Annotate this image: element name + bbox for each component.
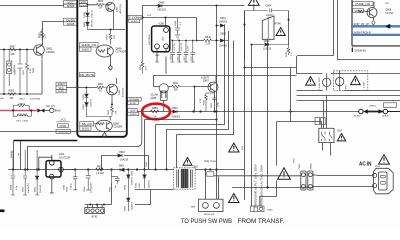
svg-text:R812: R812 [203, 99, 205, 105]
svg-text:R8B1: R8B1 [152, 107, 159, 110]
warning triangle T801 [183, 158, 199, 169]
node VCC tag inside [79, 0, 87, 7]
svg-text:1K: 1K [99, 8, 102, 10]
svg-text:SK925: SK925 [131, 21, 138, 23]
outer thin enclosure line [0, 112, 142, 170]
svg-text:BT62: BT62 [92, 216, 98, 219]
transistor Q861 [107, 78, 125, 104]
wire vertical x=245.2 [244, 11, 246, 201]
wire blue bus FR_CH [351, 25, 400, 27]
wire vertical x=267.7 [267, 45, 269, 188]
svg-text:C147M: C147M [386, 13, 393, 15]
wire y=90.6 [297, 90, 400, 92]
wire staircase 3 [177, 41, 234, 135]
node OLP label + warning triangle [337, 129, 346, 141]
resistor R812 4.7K vertical [200, 93, 215, 111]
thick wire y=140 left [14, 140, 78, 142]
svg-text:1N4003: 1N4003 [131, 177, 133, 185]
svg-text:A1267(Y): A1267(Y) [121, 87, 124, 97]
wire vertical x=196.6 + rail to R840 [197, 18, 204, 41]
diode D809 [84, 16, 94, 29]
svg-text:A1267(Y): A1267(Y) [119, 4, 122, 14]
node small box right edge [384, 103, 397, 108]
node dot 267.5,44.5 [267, 44, 269, 46]
svg-text:PURE_ON: PURE_ON [355, 2, 370, 6]
svg-text:C862: C862 [211, 102, 213, 108]
svg-text:R811: R811 [173, 83, 179, 85]
capacitor C802 electrolytic box [4, 50, 16, 95]
wire pink NR_CH line [0, 110, 37, 112]
node VCC tag left [64, 1, 78, 8]
svg-text:P801: P801 [375, 166, 381, 168]
capacitor C869 0.1 with ground [175, 18, 183, 39]
transistor Q866 A1267Y [195, 76, 219, 112]
wire staircase 2 [167, 31, 229, 130]
connector CN801 [299, 162, 306, 190]
capacitor C805 0.047u [64, 170, 78, 191]
wire SK90B drops [14, 141, 21, 170]
svg-text:2200μ/10V: 2200μ/10V [91, 182, 93, 193]
svg-text:JW801: JW801 [369, 106, 377, 108]
wire OUT rail y=17.3 [143, 17, 197, 19]
warning triangle F861 [306, 77, 321, 91]
svg-text:R814: R814 [19, 99, 25, 101]
svg-text:SK926: SK926 [80, 5, 87, 7]
node SR901 vertical ratings text [254, 164, 264, 208]
svg-text:10(6.3V): 10(6.3V) [174, 43, 176, 51]
svg-text:100V: 100V [23, 69, 25, 75]
transistor Q868 with base resistor [358, 2, 393, 20]
wire blue bus FRCH-B [351, 34, 400, 36]
node SK90B labels [11, 151, 20, 158]
resistor R805 1.2(1W) on rail [96, 166, 105, 175]
node +12V SK923 tag [128, 109, 139, 116]
diode D861 [83, 97, 112, 116]
svg-text:D811: D811 [172, 107, 178, 110]
svg-text:D808: D808 [84, 11, 86, 17]
wire vertical x=251.5 [251, 45, 253, 207]
svg-text:D842: D842 [264, 41, 270, 43]
wire Q862 emitter down [41, 60, 43, 95]
transistor Q862 C3940A [34, 44, 55, 59]
svg-text:D801: D801 [119, 166, 125, 168]
IC84 NJU7223F regulator [46, 153, 71, 179]
node diamond terminal Q808 [108, 65, 112, 70]
node SB_ON tag [80, 122, 94, 131]
svg-text:1SS133: 1SS133 [91, 98, 93, 107]
capacitor C803 100V [15, 50, 26, 95]
capacitor C807 [23, 150, 30, 195]
wire VCC inside to Q810 [88, 4, 110, 6]
svg-text:Q861: Q861 [119, 89, 121, 95]
svg-text:SK9(W-M): SK9(W-M) [355, 49, 366, 52]
connector push SW box [191, 199, 223, 216]
svg-text:C1740GR: C1740GR [116, 51, 127, 54]
svg-text:R861: R861 [98, 84, 104, 86]
svg-text:SK923: SK923 [130, 114, 137, 116]
node dots caps rail [172, 40, 198, 42]
svg-text:CN801: CN801 [299, 162, 301, 169]
capacitor C803 small [109, 170, 119, 193]
svg-text:SK927: SK927 [58, 83, 66, 86]
svg-text:10K: 10K [10, 53, 15, 56]
svg-text:C114M: C114M [151, 95, 158, 97]
svg-text:VCC: VCC [81, 0, 87, 4]
resistor R843 vertical [286, 45, 293, 58]
svg-text:10μ/50(V): 10μ/50(V) [28, 183, 30, 193]
diode D801 on rail pointing left [119, 166, 125, 172]
capacitor C862 100u vertical [211, 95, 220, 108]
wire x=290.5 vertical [290, 68, 292, 122]
node diamond Q868 [372, 21, 375, 26]
diode column D842b [125, 170, 134, 190]
resistor R840 2.2K [204, 36, 217, 46]
diode D860 [83, 88, 88, 100]
wire C861 drop [148, 156, 150, 170]
svg-text:R806: R806 [9, 91, 15, 93]
wire switch bottom stubs [323, 143, 331, 156]
svg-text:Q868: Q868 [386, 10, 392, 12]
highlight red ellipse [142, 104, 170, 120]
wire right-mid verticals [338, 0, 400, 60]
svg-text:MOMO SW: MOMO SW [204, 214, 214, 216]
svg-text:R862: R862 [108, 109, 110, 115]
wire triangle stem [253, 5, 255, 10]
connector CN82 small [251, 181, 277, 212]
wire base rail Q862 [0, 49, 34, 51]
PURE_ON sub box [352, 0, 400, 46]
connector SW801 [308, 162, 313, 190]
svg-text:OUT: OUT [147, 15, 152, 17]
wire BT62 rail [85, 184, 112, 205]
transistor Q810 [106, 2, 122, 29]
fuse F861 circle [323, 74, 331, 91]
diode D865 1N4003 [217, 33, 229, 47]
svg-text:SK926: SK926 [58, 91, 65, 93]
svg-text:R815: R815 [19, 103, 25, 105]
node dot 290.5,110.7 [289, 110, 291, 112]
svg-text:C802: C802 [15, 69, 17, 75]
main amp block thick rounded box [77, 0, 127, 137]
node dot 244.5,67.2 [244, 67, 246, 69]
ferrite bead arrows on pink wire [37, 109, 44, 113]
svg-text:10K: 10K [10, 98, 15, 100]
svg-text:T 2.5A L 250V: T 2.5A L 250V [318, 77, 321, 90]
svg-text:C804: C804 [84, 186, 86, 192]
svg-text:C841: C841 [136, 182, 138, 188]
wire y=187.7 long [232, 187, 313, 189]
wire transformer secondary bottom [135, 190, 174, 205]
svg-text:SR901/U800 (U,P):T 10A L 250V: SR901/U800 (U,P):T 10A L 250V [254, 164, 258, 208]
node diamond terminal Q860 [103, 133, 107, 138]
svg-text:SB_MUTE: SB_MUTE [80, 73, 94, 77]
svg-text:D864: D864 [220, 18, 226, 20]
battery BT62 connector [85, 205, 105, 219]
svg-text:1K: 1K [99, 91, 102, 93]
svg-text:C861: C861 [146, 161, 148, 167]
node dots on y=94.5 [3, 93, 28, 95]
svg-text:Q865: Q865 [151, 98, 157, 100]
svg-text:AC IN: AC IN [359, 162, 372, 168]
wire sub-box top y=75.7 [154, 76, 297, 87]
node dots on y=17.3 [141, 16, 166, 18]
wire D866 top [143, 6, 245, 18]
wire relay bottom pin [267, 40, 269, 45]
svg-text:C808: C808 [11, 184, 13, 190]
svg-text:1N4003: 1N4003 [131, 202, 133, 210]
svg-text:10K: 10K [173, 90, 178, 92]
wire vertical x=216.4 [216, 6, 218, 200]
diode D843 second column [143, 170, 151, 189]
capacitor row under IC86 [155, 41, 195, 63]
wire plug top [313, 174, 373, 177]
svg-text:0.47V: 0.47V [188, 45, 190, 51]
resistor R862 27K vertical [108, 104, 117, 115]
diode D811 1N4003 [172, 107, 181, 118]
svg-text:470(1/4W): 470(1/4W) [30, 99, 40, 101]
svg-text:R804: R804 [33, 67, 35, 73]
svg-text:SK931: SK931 [60, 126, 68, 128]
svg-text:RY841: RY841 [275, 24, 283, 26]
wire switch verticals top [324, 96, 327, 129]
resistor R809 10K on rail [8, 91, 16, 101]
node dot 110.4,29.3 [110, 29, 112, 31]
svg-text:D865: D865 [220, 33, 226, 35]
resistor R815 parallel branch top [13, 99, 40, 111]
diode D802 [35, 150, 42, 195]
svg-text:1N4003: 1N4003 [172, 115, 181, 118]
svg-text:SK926: SK926 [67, 5, 75, 8]
resistor R825 27K vertical [107, 30, 116, 45]
relay RY841 [245, 11, 289, 61]
svg-text:D842: D842 [125, 184, 127, 190]
svg-text:L 250V: L 250V [364, 81, 366, 88]
node dot 267.7,187.7 [266, 186, 268, 188]
svg-text:D866: D866 [159, 1, 165, 4]
capacitor C864 0.0047 [245, 5, 289, 17]
svg-text:D803: D803 [119, 152, 125, 154]
svg-text:Q809: Q809 [117, 6, 119, 12]
svg-text:C805: C805 [64, 184, 66, 190]
svg-text:SK926: SK926 [82, 48, 90, 51]
svg-text:OLP: OLP [337, 129, 342, 132]
svg-text:GND: GND [155, 55, 160, 57]
svg-text:R808: R808 [40, 32, 42, 38]
svg-text:C807: C807 [23, 186, 25, 192]
svg-text:C806: C806 [67, 186, 69, 192]
svg-text:IC86: IC86 [159, 23, 165, 26]
node bottom-left black tick [0, 210, 5, 213]
svg-text:HP: HP [18, 152, 20, 156]
resistor R881 5A [151, 107, 159, 119]
wire mid horizontal to CN801 [214, 175, 301, 177]
svg-text:GND: GND [139, 183, 141, 188]
svg-text:R843: R843 [286, 51, 288, 57]
svg-text:D861: D861 [83, 103, 85, 109]
svg-text:R860: R860 [140, 64, 142, 70]
wire caps row connect [172, 40, 196, 42]
node arrow on blue bus [386, 24, 391, 28]
node STANDBY tag right of box [128, 97, 142, 104]
svg-text:T801: T801 [193, 166, 199, 169]
svg-text:Q867: Q867 [203, 80, 210, 83]
svg-text:470(1/4W): 470(1/4W) [17, 114, 27, 116]
diode D842 1SS133 [252, 41, 289, 50]
fuse F801 dashed box [333, 71, 368, 91]
svg-text:NR: NR [1, 98, 5, 100]
node SB_MUTE label [79, 73, 94, 77]
node SK9(W-M) bottom text [352, 48, 366, 53]
wire IC84 feed L [39, 157, 52, 169]
wire switch feed y=121.6 [277, 122, 322, 166]
svg-text:Only U ver.: Only U ver. [204, 160, 217, 163]
svg-text:SK926: SK926 [67, 23, 75, 26]
node SK927 VCC tag outside [56, 82, 66, 93]
svg-text:1SS133: 1SS133 [92, 9, 94, 18]
wire +12V red-circled rail y=112 [137, 111, 359, 113]
warning triangle F81 mid [229, 143, 245, 152]
node dot Q861 collector [111, 103, 113, 105]
svg-text:C864: C864 [266, 5, 272, 7]
resistor R860 47K vertical left [140, 18, 148, 74]
node junction dots Q862 rail [3, 49, 28, 51]
svg-text:SK906: SK906 [382, 116, 389, 118]
svg-text:GL4148: GL4148 [40, 184, 42, 193]
warning triangle AC IN [379, 155, 390, 165]
svg-text:2.2K: 2.2K [206, 43, 211, 46]
svg-text:D860: D860 [83, 93, 85, 99]
svg-text:C841: C841 [131, 170, 133, 176]
svg-text:CN82: CN82 [267, 210, 273, 212]
wire y=120 [145, 119, 217, 121]
svg-text:0.1μ: 0.1μ [16, 185, 18, 190]
svg-text:C1815M: C1815M [113, 126, 122, 129]
svg-text:C3940A: C3940A [46, 51, 55, 54]
node _VCC tags outside left [56, 118, 70, 134]
svg-text:1SS133: 1SS133 [92, 19, 94, 28]
node dot 194.6,86.5 [194, 86, 196, 88]
wire staircase 1 [156, 26, 225, 125]
diode D808 [84, 5, 94, 18]
svg-text:C803: C803 [109, 186, 111, 192]
transformer T801 dashed [174, 168, 195, 189]
resistor R804 8.1K vertical [26, 50, 36, 94]
transistor Q808 with base resistor [96, 45, 126, 57]
wire SK927 to R861 [66, 87, 96, 89]
svg-text:OVER: OVER [66, 18, 76, 22]
warning triangle relay [276, 28, 285, 36]
wire Q808 emitter to diamond [109, 56, 111, 66]
svg-text:SK905: SK905 [354, 116, 361, 118]
svg-text:27K: 27K [44, 33, 46, 38]
component D808b small box on wire [207, 172, 214, 176]
svg-text:NR_CH: NR_CH [47, 106, 55, 108]
inductor L807 parallel branch bottom [13, 111, 31, 123]
jumper JW801 [354, 106, 400, 118]
svg-text:F_DOWN: F_DOWN [129, 16, 141, 20]
svg-text:SW801: SW801 [311, 162, 313, 169]
node clip boxes near switch [315, 118, 325, 125]
warning triangle F801 [351, 76, 366, 88]
warning triangle above CN801 [278, 168, 291, 179]
warning triangle bottom mid [229, 194, 239, 203]
node dot 216.5,5.5 [216, 5, 218, 7]
transistor Q865 C114M [151, 84, 172, 101]
svg-text:R829: R829 [98, 1, 104, 3]
node dot 216.4,25.2 and 40.3 [216, 25, 218, 42]
node OVER tag [64, 18, 78, 26]
node BH30 NR_CH terminal [45, 106, 61, 113]
resistor R811 10K [172, 83, 194, 92]
node junction dots pink [12, 109, 32, 111]
svg-text:D809: D809 [84, 21, 86, 27]
svg-text:R807: R807 [10, 46, 16, 49]
resistor R807 10K [8, 46, 18, 57]
svg-text:SURR_ON: SURR_ON [81, 43, 96, 47]
wire IC86 pins down [157, 49, 166, 74]
wire OVER [43, 22, 64, 46]
IC86 NJM78L05 regulator box [149, 18, 170, 58]
switch S801 box [319, 128, 334, 142]
wire vertical x=333 [333, 0, 335, 56]
wire lower rail y=94.5 [0, 93, 42, 95]
svg-text:1N4319: 1N4319 [120, 160, 129, 162]
wire plug bottom [313, 186, 373, 188]
node dot 86.8,87.5 [86, 87, 88, 89]
node dots 27.5,38.8 on rail [26, 168, 40, 170]
svg-text:1N4003: 1N4003 [149, 180, 151, 188]
svg-text:27K: 27K [114, 35, 116, 39]
svg-text:SK927: SK927 [130, 103, 137, 105]
wire y=29.3 [88, 29, 126, 31]
svg-text:R840: R840 [205, 36, 211, 39]
node C841 GND labels [136, 182, 141, 188]
svg-text:100μ: 100μ [217, 101, 219, 107]
svg-text:0.047μ: 0.047μ [71, 183, 73, 190]
svg-text:L807 0.8μH: L807 0.8μH [16, 121, 28, 123]
resistor R829 [97, 1, 104, 9]
wire bottom main rail [8, 169, 174, 171]
warning triangle above relay [248, 0, 259, 5]
svg-text:NJU7223F: NJU7223F [59, 156, 71, 159]
wire D803 branch [102, 156, 149, 170]
diode column D841 [125, 188, 134, 211]
wire push SW drops [206, 170, 219, 200]
big box right section [297, 56, 334, 68]
svg-text:2.2(6.3V): 2.2(6.3V) [181, 42, 183, 51]
svg-text:10K: 10K [385, 3, 389, 5]
node dots relay wires [244, 19, 290, 46]
svg-text:SB_ON: SB_ON [82, 122, 92, 126]
svg-text:R825: R825 [107, 33, 109, 39]
node dots bottom rail [12, 168, 168, 170]
svg-text:1.2(1W): 1.2(1W) [96, 173, 104, 175]
svg-text:NJM78L05: NJM78L05 [149, 34, 151, 45]
svg-text:D802: D802 [35, 186, 37, 192]
svg-text:4.7K: 4.7K [200, 98, 202, 103]
wire y=40.3 main [159, 39, 161, 41]
svg-text:8.1K: 8.1K [30, 68, 32, 73]
diode D864 1N4003 [217, 18, 228, 27]
wire transformer right top pin [195, 169, 244, 171]
wire fuse top y=73.6 [297, 68, 400, 74]
svg-text:1N4003: 1N4003 [219, 21, 228, 23]
resistor R808 27K vertical above Q862 [40, 29, 47, 40]
wire VCC top-left [0, 5, 64, 7]
capacitor C804 2200u electrolytic [84, 170, 93, 194]
resistor R861 [97, 84, 107, 93]
node F_DOWN tag [128, 15, 142, 23]
